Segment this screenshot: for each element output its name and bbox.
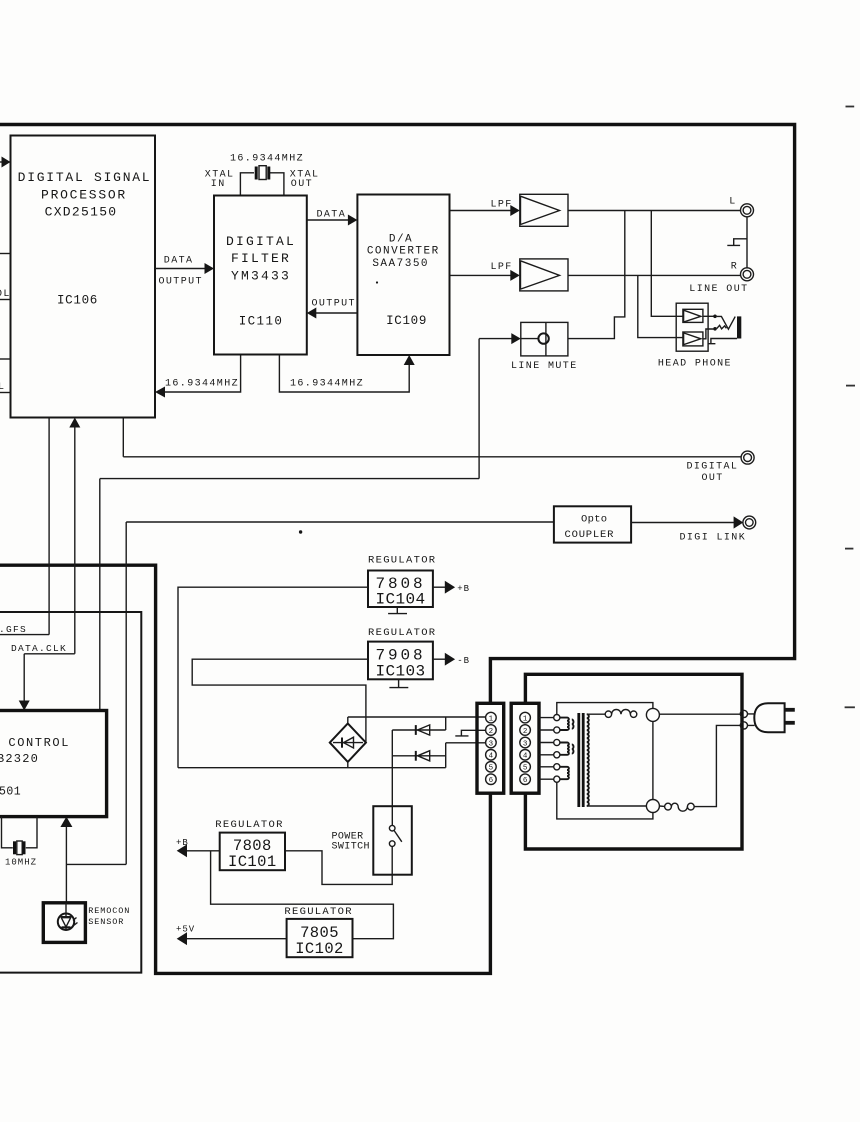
svg-text:YM3433: YM3433 [231,268,291,283]
svg-text:REGULATOR: REGULATOR [368,627,436,639]
CN102 pin 6 [520,774,531,785]
ground symbol under IC103 [389,679,408,687]
switch contact circle 1 [389,825,395,831]
wire headphone R tap [638,275,683,337]
fuse terminal circle [687,803,694,810]
bridge internal wire [333,742,363,744]
wire IC101 output +B [187,850,220,852]
svg-text:DATA.CLK: DATA.CLK [11,643,67,654]
svg-text:4: 4 [489,753,494,761]
svg-text:B2320: B2320 [0,752,39,766]
wire bottom rail to IC104 loop [178,767,446,769]
line mute internal wire [521,338,538,340]
wire IC102 output +5V [187,938,287,940]
chassis ground symbol at line out [727,239,747,246]
arrowhead into IC110 [205,263,215,274]
fuse F102 wave [671,803,687,811]
board outline top/right/bottom thick boundary [0,125,795,974]
svg-text:16.9344MHZ: 16.9344MHZ [165,379,239,390]
wire remocon sensor to control box with up arrow [65,822,67,903]
power switch S101 box [373,806,412,875]
svg-text:FILTER: FILTER [231,251,291,266]
svg-text:501: 501 [0,786,21,799]
svg-text:IC104: IC104 [375,591,425,609]
wire big terminal to plug live [659,713,740,715]
connector DIGI LINK jack [743,516,756,529]
svg-text:4: 4 [523,753,528,761]
wire plug stubs [748,714,755,726]
svg-text:PROCESSOR: PROCESSOR [41,188,127,203]
light ray arrows [73,918,78,926]
wire IC103 output -B [433,658,445,660]
SEC-REG [178,555,504,826]
wire opto feed horizontal [126,521,554,523]
wire opto coupler output to DIGI LINK [631,522,735,524]
arrowhead into line mute [511,333,521,344]
wire remocon junction horizontal [66,863,126,865]
voltage regulator IC103 7908 box [368,642,433,680]
svg-text:-B: -B [457,656,470,666]
svg-text:16.9344MHZ: 16.9344MHZ [290,379,364,390]
plug terminal circle live [740,710,747,717]
svg-text:2: 2 [489,728,494,736]
page registration tick 3 [845,548,853,550]
IC IC106 digital signal processor CXD25150 box [11,136,156,418]
wire DATA OUTPUT IC106 to IC110 [155,268,208,270]
AC plug prong 2 [785,721,795,725]
crystal X501 10MHZ wires [2,817,38,848]
wire clock to IC106 16.9344MHZ with left arrow [161,355,241,393]
transformer terminal circle t3 [554,739,560,745]
svg-text:IN: IN [211,179,226,190]
wire DIGITAL OUT vertical from IC106 [122,418,124,457]
fuse terminal circle [605,711,611,717]
CN101 pin 4 [486,750,497,761]
jack spring contact top [717,316,736,329]
svg-text:CXD25150: CXD25150 [45,205,118,220]
transformer T101 primary winding [587,714,589,806]
wire headphone L tap [651,211,683,317]
wire mute-control vertical into control box [99,479,101,711]
svg-text:DIGITAL: DIGITAL [687,462,739,473]
connector line out L jack [741,204,754,217]
thermal fuse big terminal circle [646,708,659,721]
svg-text:L: L [0,382,5,393]
wires CN102 pins to transformer terminals [539,718,554,780]
SEC-IC106 [0,136,741,865]
head phone amp1 triangle [684,310,701,322]
IC IC110 digital filter YM3433 box [214,196,307,355]
connector line out R jack [741,268,754,281]
page registration tick 2 [846,385,855,387]
fuse F101 wave [612,710,631,715]
chassis ground at pin2 [455,730,486,736]
wire fuse to plug neutral [694,725,740,806]
head phone amp2 box [683,332,703,346]
wire IC104 input loop [178,587,368,768]
IC IC109 D/A converter SAA7350 box [357,195,449,356]
wire line mute input [479,338,514,340]
transformer terminal circle t5 [554,764,560,770]
wire R channel LPF2 to line out R [568,274,740,276]
SEC-TRANS [511,674,795,849]
stray dot artifact [376,281,378,283]
svg-text:IC102: IC102 [295,940,344,958]
wire DATA.CLK horizontal [24,653,75,655]
wire stub node L [0,392,11,394]
remocon sensor photodiode circle [58,914,74,930]
system control IC501 B2320 box [0,711,107,817]
wire bridge top stub to pin1 rail [347,717,349,723]
wire pin6 terminal primary return loop [557,782,653,819]
wire stub left edge node [0,253,11,255]
SEC-TICKS [845,107,855,708]
arrowhead into IC106 pin (left) [2,157,11,168]
wire junction v1 pin1-to-diode1 [445,717,447,730]
svg-text:DIGITAL SIGNAL: DIGITAL SIGNAL [18,170,152,185]
svg-text:5: 5 [489,765,494,773]
arrowhead +5V output [177,932,187,945]
svg-text:IC110: IC110 [239,315,284,329]
CN101 pin 5 [486,762,497,773]
wire GFS vertical from IC106 [48,418,50,635]
svg-text:IC106: IC106 [57,294,98,308]
arrowhead +B output [177,844,187,857]
wire GFS horizontal [0,634,49,636]
head phone block outer box [676,303,708,351]
wire line mute feed vertical [478,339,480,479]
ink speck artifact [299,530,302,533]
CN102 pin 2 [520,725,531,736]
transformer terminal circle t2 [554,727,560,733]
connector CN101 box [477,703,504,793]
voltage regulator IC104 7808 box [368,571,433,608]
arrowhead up into control box [60,817,72,827]
svg-text:6: 6 [489,777,494,785]
transformer terminal circle t1 [554,715,560,721]
connector CN102 box [511,703,539,793]
wire IC103 input loop [192,659,368,742]
svg-text:OUT: OUT [702,473,724,484]
crystal X101 symbol [256,166,269,180]
arrowhead left into IC106 right edge [155,387,165,398]
svg-text:CONTROL: CONTROL [8,736,70,750]
CN101 pin 3 [486,737,497,748]
svg-text:IC101: IC101 [228,853,277,871]
wire diode D103 branch [392,755,445,757]
fuse terminal circle [630,711,636,717]
wire junction v2 [445,743,447,768]
svg-text:2: 2 [523,728,528,736]
wire R channel IC109 to LPF2 [450,274,515,276]
svg-text:REGULATOR: REGULATOR [368,555,436,567]
wire primary bottom [587,805,647,807]
diode D102 symbol [418,725,430,735]
SEC-BOTTOM [0,612,412,973]
svg-text:16.9344MHZ: 16.9344MHZ [230,154,304,165]
wire stub left edge node [0,358,11,360]
junction dot [713,315,717,319]
svg-text:.GFS: .GFS [0,624,27,635]
svg-text:R: R [731,262,738,273]
wire line mute output to L bus [568,211,625,339]
line mute contact circle [538,333,548,343]
wire bridge bottom stub [347,762,349,768]
transformer T101 secondary winding 1 [560,718,569,730]
svg-text:OUTPUT: OUTPUT [159,277,203,288]
svg-text:6: 6 [523,777,528,785]
wire switch bottom to IC101 input [285,846,392,884]
wire opto feed vertical [125,522,127,864]
wire mute-control horizontal y479 [100,478,479,480]
connector DIGITAL OUT jack [741,451,754,464]
svg-text:DATA: DATA [317,210,347,221]
wire between big terminals [652,721,654,799]
wire clock IC110 to IC109 16.9344MHZ [279,355,409,393]
arrowhead into IC109 [348,215,358,226]
svg-text:LINE MUTE: LINE MUTE [511,361,578,372]
transformer unit box [525,674,742,849]
CN102 pin 1 [520,712,531,723]
bridge internal diode [344,737,354,748]
wire XTAL OUT to IC110 top [270,173,284,196]
transformer terminal circle t6 [554,776,560,782]
svg-text:SWITCH: SWITCH [332,842,370,853]
wire DATA IC110 to IC109 [307,219,352,221]
transformer T101 secondary winding 3 [560,767,569,779]
control section outer box [0,612,141,973]
arrowhead down into control box [19,701,30,711]
CN102 pin 4 [520,750,531,761]
svg-text:3: 3 [523,740,528,748]
svg-text:DIGITAL: DIGITAL [226,234,296,249]
transformer terminal circle t4 [554,752,560,758]
wire +B tap down to IC102 input [211,851,394,939]
wire DATA.CLK vertical into control box [23,654,25,704]
svg-text:IC109: IC109 [386,314,427,328]
svg-text:3: 3 [489,740,494,748]
transformer core bars [577,713,580,807]
svg-text:OUT: OUT [291,179,313,190]
photodiode symbol [61,903,72,931]
arrowhead into LPF2 [510,270,520,281]
svg-text:DATA: DATA [164,256,194,267]
low-pass filter LPF1 box with amp triangle [520,194,568,226]
svg-text:OL: OL [0,289,11,300]
wire pin1 rail [348,716,486,718]
svg-text:Opto: Opto [581,513,607,525]
CN102 pin 5 [520,762,531,773]
fuse terminal circle [665,803,672,810]
wire stub node OL [0,299,11,301]
wire pin3 branch [446,742,486,744]
CN101 pin 1 [486,712,497,723]
svg-text:+B: +B [457,584,470,594]
wire XTAL IN from IC110 top [240,173,254,196]
svg-text:10MHZ: 10MHZ [5,858,37,868]
wire pin1 terminal loop over transformer [557,703,653,715]
arrowhead +B [445,581,455,594]
svg-text:IC103: IC103 [375,663,425,681]
svg-text:COUPLER: COUPLER [565,529,615,541]
opto coupler U2 box [554,506,631,542]
CN102 pin 3 [520,737,531,748]
arrowhead into LPF1 [510,205,520,216]
line mute block box [521,322,568,356]
wire power switch feed vertical [391,730,393,825]
plug terminal circle neutral [740,722,747,729]
svg-text:SENSOR: SENSOR [88,917,124,927]
thermal fuse big terminal circle 2 [646,800,659,813]
svg-text:REGULATOR: REGULATOR [284,906,352,918]
svg-text:D/A: D/A [389,233,413,245]
arrowhead up into IC106 bottom [69,418,80,428]
switch contact circle 2 [389,841,395,847]
svg-text:LPF: LPF [491,262,513,273]
wire L channel LPF1 to line out L [568,210,740,212]
headphone jack sleeve (filled) [737,316,741,338]
svg-text:OUTPUT: OUTPUT [312,299,356,310]
svg-text:HEAD PHONE: HEAD PHONE [658,359,732,370]
wire IC104 output +B [433,586,445,588]
voltage regulator IC102 7805 box [287,919,353,957]
CN101 pin 2 [486,725,497,736]
transformer T101 secondary winding 2 [560,743,569,755]
SEC-MID [155,154,450,393]
svg-text:LPF: LPF [491,200,513,211]
wire DIGITAL OUT horizontal [123,456,741,458]
arrowhead up into IC109 bottom [404,355,415,365]
wire OUTPUT IC109 to IC110 [313,312,358,314]
arrowhead into IC110 right edge [307,308,317,319]
svg-text:1: 1 [489,715,494,723]
svg-text:REGULATOR: REGULATOR [215,819,283,831]
page registration tick 4 [845,706,855,708]
arrowhead at DIGI LINK jack [734,516,744,528]
svg-text:+5V: +5V [176,925,195,935]
page registration tick 1 [846,106,855,108]
wire L channel IC109 to LPF1 [450,210,515,212]
junction dot [713,327,717,331]
svg-text:SAA7350: SAA7350 [372,258,429,270]
remocon sensor box [43,903,85,943]
head phone amp1 box [683,309,703,322]
diode D103 symbol [418,751,430,761]
low-pass filter LPF2 box with amp triangle [520,259,568,291]
AC plug prong 1 [785,708,795,712]
headphone jack ground bracket [708,339,737,344]
ground symbol under IC104 [388,607,407,614]
arrowhead -B [445,653,455,666]
svg-text:5: 5 [523,765,528,773]
wire L-R jack link [746,217,748,268]
svg-text:DIGI LINK: DIGI LINK [680,533,747,544]
wire stub into IC106 left with arrow [0,161,4,163]
svg-text:REMOCON: REMOCON [88,906,130,916]
svg-text:L: L [729,197,736,208]
AC plug body [754,703,784,732]
voltage regulator IC101 7808 box [220,833,285,871]
jack spring contact bottom [717,325,727,329]
svg-text:+B: +B [176,838,189,848]
switch lever [394,831,402,842]
svg-text:LINE OUT: LINE OUT [689,284,748,295]
bridge rectifier D101 diamond [330,723,366,762]
head phone amp2 triangle [684,333,701,345]
CN101 pin 6 [486,774,497,785]
wire diode D102 branch [392,729,445,731]
line mute internal divider [545,322,547,356]
svg-text:1: 1 [523,715,528,723]
wire amp1 output to jack tip [703,315,714,317]
crystal X501 symbol [15,841,25,855]
wire amp2 output to jack ring [703,329,714,339]
SEC-RIGHT [450,194,756,543]
wire DATA.CLK vertical from IC106 with up arrow [74,421,76,654]
svg-text:CONVERTER: CONVERTER [367,246,440,258]
wire primary top to fuse chain [587,713,605,715]
